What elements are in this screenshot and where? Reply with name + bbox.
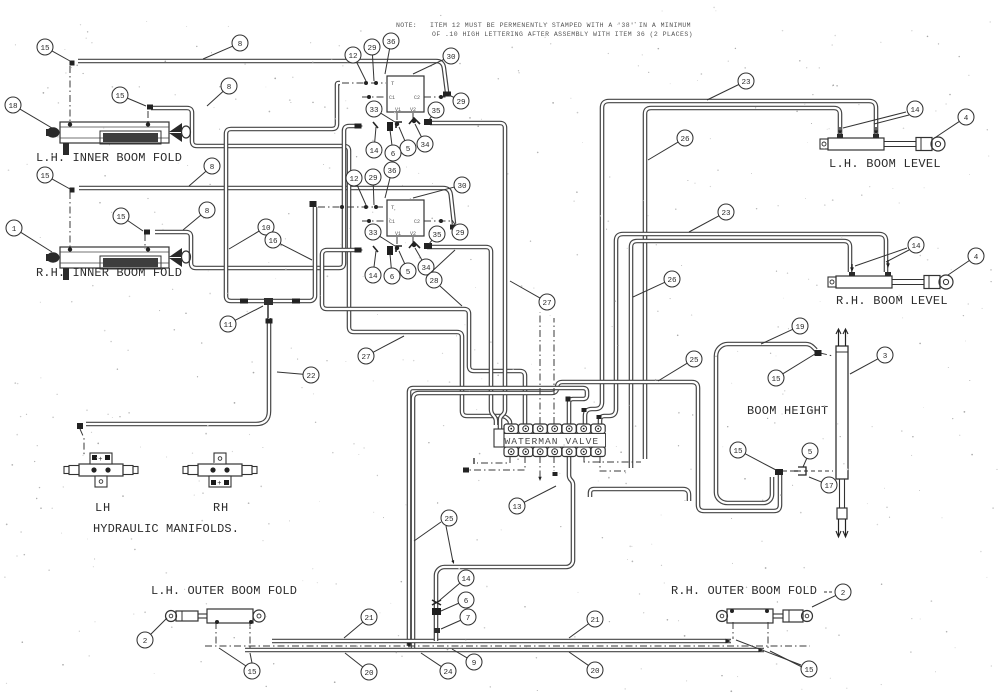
- svg-text:RH: RH: [213, 501, 229, 515]
- svg-text:33: 33: [369, 107, 379, 115]
- svg-text:NOTE:: NOTE:: [396, 22, 417, 29]
- svg-text:15: 15: [804, 667, 814, 675]
- svg-text:C1: C1: [389, 95, 395, 101]
- svg-text:8: 8: [227, 84, 232, 92]
- svg-text:12: 12: [349, 176, 359, 184]
- svg-text:R.H. INNER BOOM FOLD: R.H. INNER BOOM FOLD: [36, 266, 182, 280]
- svg-text:21: 21: [364, 615, 374, 623]
- svg-text:5: 5: [406, 269, 411, 277]
- svg-text:28: 28: [429, 278, 439, 286]
- svg-text:27: 27: [361, 354, 370, 362]
- svg-text:L.H. INNER BOOM FOLD: L.H. INNER BOOM FOLD: [36, 151, 182, 165]
- svg-text:26: 26: [667, 277, 677, 285]
- svg-text:15: 15: [771, 376, 781, 384]
- svg-text:26: 26: [680, 136, 690, 144]
- svg-text:34: 34: [420, 142, 430, 150]
- svg-text:6: 6: [391, 151, 396, 159]
- svg-text:V1: V1: [395, 231, 401, 237]
- svg-text:+: +: [217, 480, 221, 488]
- svg-text:15: 15: [115, 93, 125, 101]
- svg-text:13: 13: [512, 504, 522, 512]
- svg-text:30: 30: [457, 183, 467, 191]
- svg-text:35: 35: [431, 108, 441, 116]
- svg-text:V1: V1: [395, 107, 401, 113]
- svg-text:6: 6: [464, 598, 469, 606]
- svg-text:V2: V2: [410, 231, 416, 237]
- svg-text:18: 18: [8, 103, 18, 111]
- svg-text:29: 29: [368, 175, 378, 183]
- svg-text:29: 29: [456, 99, 466, 107]
- svg-text:29: 29: [455, 230, 465, 238]
- svg-text:15: 15: [247, 669, 257, 677]
- svg-text:14: 14: [368, 273, 378, 281]
- svg-text:7: 7: [466, 615, 471, 623]
- svg-text:R.H. OUTER BOOM FOLD: R.H. OUTER BOOM FOLD: [671, 584, 817, 598]
- svg-text:V2: V2: [410, 107, 416, 113]
- svg-text:C2: C2: [414, 95, 420, 101]
- svg-text:WATERMAN VALVE: WATERMAN VALVE: [505, 436, 600, 447]
- svg-text:24: 24: [443, 669, 453, 677]
- svg-text:17: 17: [824, 483, 833, 491]
- svg-text:8: 8: [238, 41, 243, 49]
- svg-text:OF .10 HIGH LETTERING AFTER AS: OF .10 HIGH LETTERING AFTER ASSEMBLY WIT…: [432, 31, 693, 38]
- svg-text:34: 34: [421, 265, 431, 273]
- svg-text:10: 10: [261, 225, 271, 233]
- svg-text:5: 5: [808, 449, 813, 457]
- svg-text:2: 2: [841, 590, 846, 598]
- svg-text:22: 22: [306, 373, 316, 381]
- svg-text:14: 14: [910, 107, 920, 115]
- svg-text:20: 20: [364, 670, 374, 678]
- svg-text:8: 8: [210, 164, 215, 172]
- svg-text:14: 14: [369, 148, 379, 156]
- svg-text:6: 6: [390, 274, 395, 282]
- svg-text:R.H. BOOM LEVEL: R.H. BOOM LEVEL: [836, 294, 948, 308]
- svg-text:15: 15: [40, 173, 50, 181]
- svg-text:9: 9: [472, 660, 477, 668]
- svg-text:15: 15: [733, 448, 743, 456]
- svg-text:29: 29: [367, 45, 377, 53]
- svg-text:25: 25: [689, 357, 699, 365]
- svg-text:11: 11: [223, 322, 233, 330]
- svg-text:3: 3: [883, 353, 888, 361]
- svg-text:14: 14: [461, 576, 471, 584]
- svg-text:23: 23: [741, 79, 751, 87]
- svg-text:BOOM HEIGHT: BOOM HEIGHT: [747, 404, 828, 418]
- svg-text:1: 1: [12, 226, 17, 234]
- svg-text:L.H. BOOM LEVEL: L.H. BOOM LEVEL: [829, 157, 941, 171]
- svg-text:HYDRAULIC MANIFOLDS.: HYDRAULIC MANIFOLDS.: [93, 522, 239, 536]
- svg-text:8: 8: [205, 208, 210, 216]
- svg-text:5: 5: [406, 146, 411, 154]
- svg-text:16: 16: [268, 238, 278, 246]
- svg-text:2: 2: [143, 638, 148, 646]
- svg-text:21: 21: [590, 617, 600, 625]
- svg-text:36: 36: [386, 39, 396, 47]
- svg-text:30: 30: [446, 54, 456, 62]
- svg-text:27: 27: [542, 300, 551, 308]
- svg-text:C1: C1: [389, 219, 395, 225]
- svg-text:ITEM 12 MUST BE PERMENENTLY ST: ITEM 12 MUST BE PERMENENTLY STAMPED WITH…: [430, 22, 691, 29]
- svg-text:35: 35: [432, 232, 442, 240]
- svg-text:LH: LH: [95, 501, 111, 515]
- svg-text:33: 33: [368, 230, 378, 238]
- svg-text:+: +: [98, 456, 102, 464]
- svg-text:19: 19: [795, 324, 805, 332]
- svg-text:4: 4: [964, 115, 969, 123]
- svg-text:14: 14: [911, 243, 921, 251]
- svg-text:15: 15: [116, 214, 126, 222]
- svg-text:15: 15: [40, 45, 50, 53]
- svg-text:23: 23: [721, 210, 731, 218]
- svg-text:25: 25: [444, 516, 454, 524]
- svg-text:4: 4: [974, 254, 979, 262]
- svg-text:12: 12: [348, 53, 358, 61]
- svg-text:C2: C2: [414, 219, 420, 225]
- svg-text:20: 20: [590, 668, 600, 676]
- svg-text:36: 36: [387, 168, 397, 176]
